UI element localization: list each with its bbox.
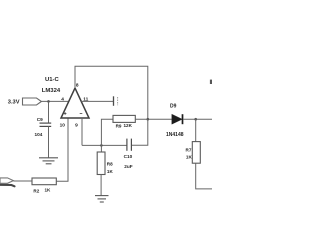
svg-text:1K: 1K — [45, 188, 52, 193]
D9 cathode bar — [182, 114, 184, 124]
wire R9 to diode anode — [135, 118, 172, 120]
svg-text:C10: C10 — [124, 154, 133, 159]
svg-text:R7: R7 — [186, 148, 192, 153]
svg-text:9: 9 — [75, 122, 78, 128]
wire R8 to ground — [100, 175, 102, 196]
svg-text:1K: 1K — [107, 169, 114, 174]
resistor R8 — [97, 152, 105, 175]
svg-text:U1-C: U1-C — [45, 77, 59, 83]
wire diode cathode to right edge — [183, 118, 212, 120]
artifact mark right edge — [210, 80, 212, 84]
svg-text:R2: R2 — [33, 189, 39, 194]
diode D9 — [172, 114, 182, 124]
junction node R7 — [194, 118, 197, 121]
svg-text:1K: 1K — [186, 155, 193, 160]
wire junction down to C9 — [48, 101, 50, 123]
svg-text:10: 10 — [60, 122, 66, 128]
feedback loop wire pin 8 up and over — [75, 66, 148, 119]
ground below C9 — [39, 158, 58, 164]
svg-text:3.3V: 3.3V — [8, 100, 20, 106]
junction node input/C9 — [47, 100, 50, 103]
input tag 3.3V — [23, 98, 42, 105]
junction node feedback/R9/C10/diode — [147, 118, 150, 121]
svg-text:1N4148: 1N4148 — [166, 132, 184, 138]
wire junction down to R8 — [100, 145, 102, 152]
input tag (bottom left, cropped) — [0, 178, 13, 183]
pin 11 wire — [81, 100, 113, 102]
svg-text:R8: R8 — [107, 162, 113, 167]
wire junction up to R9 — [101, 119, 113, 145]
junction node R8/R9/C10 — [100, 144, 103, 147]
op-amp - input mark — [80, 113, 83, 115]
wire R2 to op-amp pin 10 — [56, 118, 68, 181]
wire node down to C10 right plate — [132, 119, 148, 145]
svg-text:104: 104 — [35, 132, 43, 137]
svg-text:4: 4 — [61, 97, 64, 103]
capacitor plate at pin 11 — [113, 96, 115, 106]
wire node down to R7 — [195, 119, 197, 141]
ground below R8 — [95, 196, 109, 202]
dark edge artifact on tag bottom — [0, 185, 15, 187]
svg-text:8: 8 — [76, 82, 79, 88]
wire tag to R2 — [13, 180, 32, 182]
wire tag to op-amp pin 4 — [41, 100, 68, 102]
wire C9 to ground — [48, 126, 50, 157]
op-amp + input mark — [64, 112, 67, 115]
resistor R9 — [113, 115, 135, 122]
capacitor C10 — [127, 139, 131, 151]
svg-text:12K: 12K — [124, 123, 133, 128]
resistor R7 — [192, 142, 200, 164]
svg-text:2uF: 2uF — [124, 164, 132, 169]
svg-text:LM324: LM324 — [42, 88, 61, 94]
faint second plate — [117, 97, 119, 105]
resistor R2 — [32, 178, 56, 185]
capacitor C9 — [40, 123, 52, 126]
op-amp U1-C triangle — [61, 88, 89, 118]
svg-text:D9: D9 — [170, 103, 177, 109]
svg-text:R9: R9 — [116, 124, 122, 129]
wire pin 9 node to C10 — [82, 144, 127, 146]
svg-text:C9: C9 — [37, 117, 43, 122]
wire R7 bottom to right edge — [196, 163, 212, 189]
wire pin 9 down — [81, 118, 83, 145]
